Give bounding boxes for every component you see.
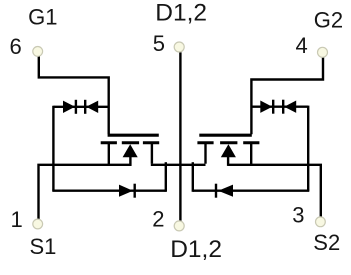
- wire body-diode left riser: [165, 162, 167, 192]
- wire body drop Q1: [129, 155, 131, 166]
- zener diode D4 (G1 protection, right): [84, 100, 86, 114]
- transistor Q1 gate bar: [108, 134, 159, 137]
- wire body-diode right riser: [192, 162, 194, 192]
- svg-text:D1,2: D1,2: [155, 0, 207, 27]
- body diode D1 (Q1): [119, 185, 133, 197]
- transistor Q1 drain contact: [143, 141, 159, 144]
- terminal pin 2: [174, 221, 184, 231]
- svg-text:3: 3: [292, 203, 304, 228]
- terminal pin 6: [33, 47, 43, 57]
- wire source row S2: [228, 165, 321, 217]
- wire gate G1 feed: [39, 57, 109, 135]
- wire body drop Q2: [227, 155, 229, 166]
- svg-text:2: 2: [152, 207, 164, 232]
- wire zener right leg: [307, 106, 309, 191]
- svg-text:S2: S2: [313, 230, 340, 255]
- svg-text:G1: G1: [28, 4, 57, 29]
- terminal pin 5: [174, 42, 184, 52]
- wire zener row right: [251, 105, 308, 107]
- terminal pin 1: [33, 219, 43, 229]
- wire source drop Q2: [250, 144, 252, 166]
- transistor Q1 body arrow: [123, 144, 138, 157]
- zener diode D5 (G2 protection, left): [260, 101, 272, 113]
- terminal pin 4: [318, 47, 328, 57]
- transistor Q2 gate bar: [199, 134, 252, 137]
- zener diode D6 (G2 protection, right): [282, 100, 284, 114]
- svg-text:D1,2: D1,2: [170, 236, 222, 263]
- wire body-diode row right: [193, 189, 309, 191]
- transistor Q1 source contact: [101, 141, 117, 144]
- wire drain drop Q1: [151, 144, 153, 164]
- wire zener left leg: [52, 106, 54, 191]
- transistor Q2 body contact: [220, 141, 237, 144]
- wire source drop Q1: [108, 144, 110, 166]
- body diode D2 (Q2): [215, 184, 217, 198]
- terminal pin 3: [316, 217, 326, 227]
- wire gate G2 feed: [251, 58, 323, 135]
- wire drain row center: [151, 164, 206, 166]
- wire source row S1: [39, 165, 132, 219]
- wire zener row left: [53, 106, 108, 108]
- transistor Q2 source contact: [243, 141, 259, 144]
- svg-text:1: 1: [11, 207, 23, 232]
- svg-text:S1: S1: [30, 234, 57, 259]
- svg-text:6: 6: [10, 34, 22, 59]
- transistor Q2 body arrow: [221, 144, 236, 157]
- svg-text:G2: G2: [314, 7, 343, 32]
- svg-text:4: 4: [296, 33, 308, 58]
- wire drain drop Q2: [204, 144, 206, 164]
- wire center drain D1,2: [179, 52, 181, 221]
- transistor Q1 body contact: [122, 141, 139, 144]
- zener diode D3 (G1 protection, left): [63, 101, 75, 113]
- transistor Q2 drain contact: [197, 141, 213, 144]
- wire body-diode row left: [52, 189, 166, 191]
- svg-text:5: 5: [153, 31, 165, 56]
